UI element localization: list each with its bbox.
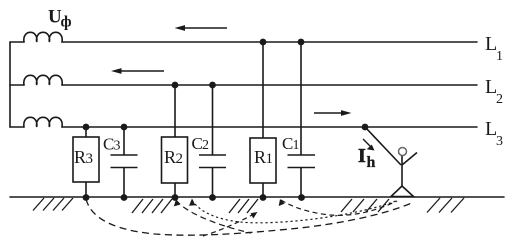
person head bbox=[399, 148, 407, 156]
wire left neutral bus vertical bbox=[9, 42, 11, 127]
dashed earth-current arc feet to R2 (fine dotted, arrow up at left end) bbox=[192, 200, 398, 223]
svg-text:R: R bbox=[164, 147, 176, 167]
node dot on L3 at R3 tap bbox=[83, 124, 90, 131]
ground hatching group 2 bbox=[132, 199, 172, 213]
arrow Ih direction bbox=[363, 139, 375, 151]
ground hatching group 4 bbox=[341, 199, 389, 212]
coil (source winding) on L2 bbox=[24, 75, 62, 85]
resistor R3 bbox=[73, 137, 99, 182]
node dot on L3 at touch point bbox=[362, 124, 369, 131]
svg-text:3: 3 bbox=[496, 134, 503, 149]
wire C1 vertical bbox=[300, 42, 302, 197]
node dot on L2 at C2 tap bbox=[209, 82, 216, 89]
node dot on L1 at C1 tap bbox=[298, 39, 305, 46]
resistor R1 bbox=[250, 138, 276, 183]
svg-text:1: 1 bbox=[293, 138, 300, 153]
wire L3 horizontal bbox=[10, 126, 477, 128]
wire R2 vertical bbox=[174, 85, 176, 197]
person arm raised bbox=[402, 153, 417, 166]
node dot ground at C3 bbox=[121, 194, 128, 201]
dashed earth-current arc from R3 ground to feet bbox=[86, 199, 414, 235]
wire from L3 touch point to person hand bbox=[365, 127, 401, 165]
person legs triangle bbox=[391, 186, 414, 197]
svg-text:3: 3 bbox=[86, 151, 94, 167]
svg-text:ф: ф bbox=[61, 14, 72, 31]
node dot ground at C2 bbox=[209, 194, 216, 201]
wire L2 horizontal bbox=[10, 84, 477, 86]
wire R1 vertical bbox=[262, 42, 264, 197]
arrowhead at R2-side end of fine arc bbox=[189, 199, 195, 206]
arrowhead into R2 ground dot bbox=[174, 200, 180, 207]
svg-text:3: 3 bbox=[114, 139, 121, 154]
arrowhead at R1-side end bbox=[279, 199, 285, 206]
svg-text:1: 1 bbox=[496, 49, 503, 64]
wire C3 vertical bbox=[123, 127, 125, 197]
ground hatching group 3 bbox=[229, 199, 258, 213]
wire C2 vertical bbox=[212, 85, 214, 197]
resistor R2 bbox=[162, 137, 188, 183]
ground hatching group 5 bbox=[427, 198, 464, 213]
short dashed branch arc with arrow toward R1 dot bbox=[203, 214, 254, 236]
svg-text:2: 2 bbox=[202, 138, 209, 153]
current arrow on L3 (rightwards) bbox=[314, 110, 352, 116]
coil (source winding) on L3 bbox=[24, 117, 62, 127]
current arrow on L1 (leftwards) bbox=[175, 25, 228, 31]
svg-text:2: 2 bbox=[496, 92, 503, 107]
svg-text:2: 2 bbox=[176, 151, 184, 167]
svg-text:R: R bbox=[74, 147, 86, 167]
current arrow on L2 (leftwards) bbox=[111, 68, 164, 74]
node dot on L3 at C3 tap bbox=[121, 124, 128, 131]
svg-text:1: 1 bbox=[266, 151, 274, 167]
person body bbox=[401, 156, 403, 186]
capacitor C3 plates bbox=[111, 155, 138, 168]
dashed earth-current arc feet to R1 (arrow up-left) bbox=[281, 200, 397, 215]
node dot ground at R3 bbox=[83, 194, 90, 201]
capacitor C2 plates bbox=[199, 155, 226, 168]
node dot on L2 at R2 tap bbox=[172, 82, 179, 89]
ground hatching group 1 bbox=[33, 198, 73, 211]
svg-text:h: h bbox=[367, 154, 376, 171]
coil (source winding) on L1 bbox=[24, 32, 62, 42]
ground surface line bbox=[10, 196, 504, 198]
node dot on L1 at R1 tap bbox=[260, 39, 267, 46]
node dot ground at C1 bbox=[298, 194, 305, 201]
svg-text:R: R bbox=[254, 147, 266, 167]
svg-text:I: I bbox=[358, 145, 366, 167]
node dot ground at R1 bbox=[260, 194, 267, 201]
capacitor C1 plates bbox=[288, 155, 316, 168]
wire R3 vertical bbox=[85, 127, 87, 197]
arrowhead of branch arc bbox=[251, 212, 258, 219]
node dot ground at R2 bbox=[172, 194, 179, 201]
dashed slanted line from R2 ground dot down to big arc bbox=[176, 200, 251, 233]
wire L1 horizontal bbox=[10, 41, 477, 43]
